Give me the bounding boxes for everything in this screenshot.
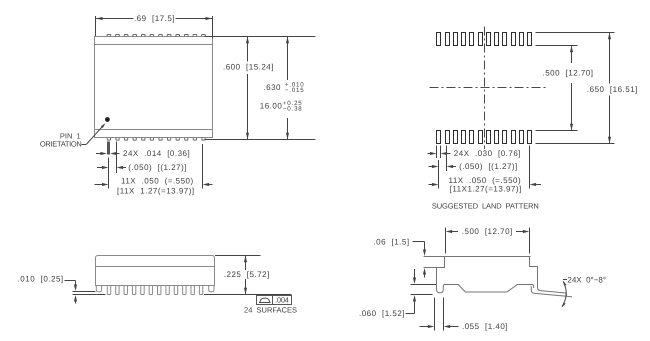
svg-text:.500 [12.70]: .500 [12.70] — [543, 68, 594, 77]
svg-text:16.00: 16.00 — [260, 102, 283, 111]
svg-text:24X .030 [0.76]: 24X .030 [0.76] — [454, 149, 521, 158]
svg-text:.600 [15.24]: .600 [15.24] — [223, 63, 274, 72]
svg-text:ORIETATION: ORIETATION — [40, 139, 82, 148]
svg-text:.010 [0.25]: .010 [0.25] — [18, 275, 64, 284]
svg-text:11X .050 (=.550): 11X .050 (=.550) — [121, 176, 194, 185]
svg-text:24 SURFACES: 24 SURFACES — [244, 305, 297, 314]
svg-text:SUGGESTED LAND PATTERN: SUGGESTED LAND PATTERN — [432, 202, 539, 211]
svg-text:.69 [17.5]: .69 [17.5] — [134, 14, 175, 23]
svg-text:24X 0°−8°: 24X 0°−8° — [567, 276, 606, 285]
svg-text:.055 [1.40]: .055 [1.40] — [462, 322, 508, 331]
svg-text:.004: .004 — [275, 295, 289, 304]
svg-text:.225 [5.72]: .225 [5.72] — [224, 270, 270, 279]
svg-text:−0.38: −0.38 — [283, 105, 303, 112]
svg-text:[11X1.27(=13.97)]: [11X1.27(=13.97)] — [450, 185, 522, 194]
svg-text:.500 [12.70]: .500 [12.70] — [462, 227, 513, 236]
svg-text:11X .050 (=.550): 11X .050 (=.550) — [449, 176, 522, 185]
svg-text:.06 [1.5]: .06 [1.5] — [373, 238, 409, 247]
svg-text:24X .014 [0.36]: 24X .014 [0.36] — [123, 149, 190, 158]
svg-text:−.015: −.015 — [285, 87, 305, 94]
svg-text:.650 [16.51]: .650 [16.51] — [587, 85, 638, 94]
svg-text:[11X 1.27(=13.97)]: [11X 1.27(=13.97)] — [117, 187, 195, 196]
svg-text:.630: .630 — [263, 83, 281, 92]
svg-text:(.050) [(1.27)]: (.050) [(1.27)] — [128, 163, 187, 172]
svg-text:(.050) [(1.27)]: (.050) [(1.27)] — [459, 162, 518, 171]
svg-text:.060 [1.52]: .060 [1.52] — [359, 309, 405, 318]
